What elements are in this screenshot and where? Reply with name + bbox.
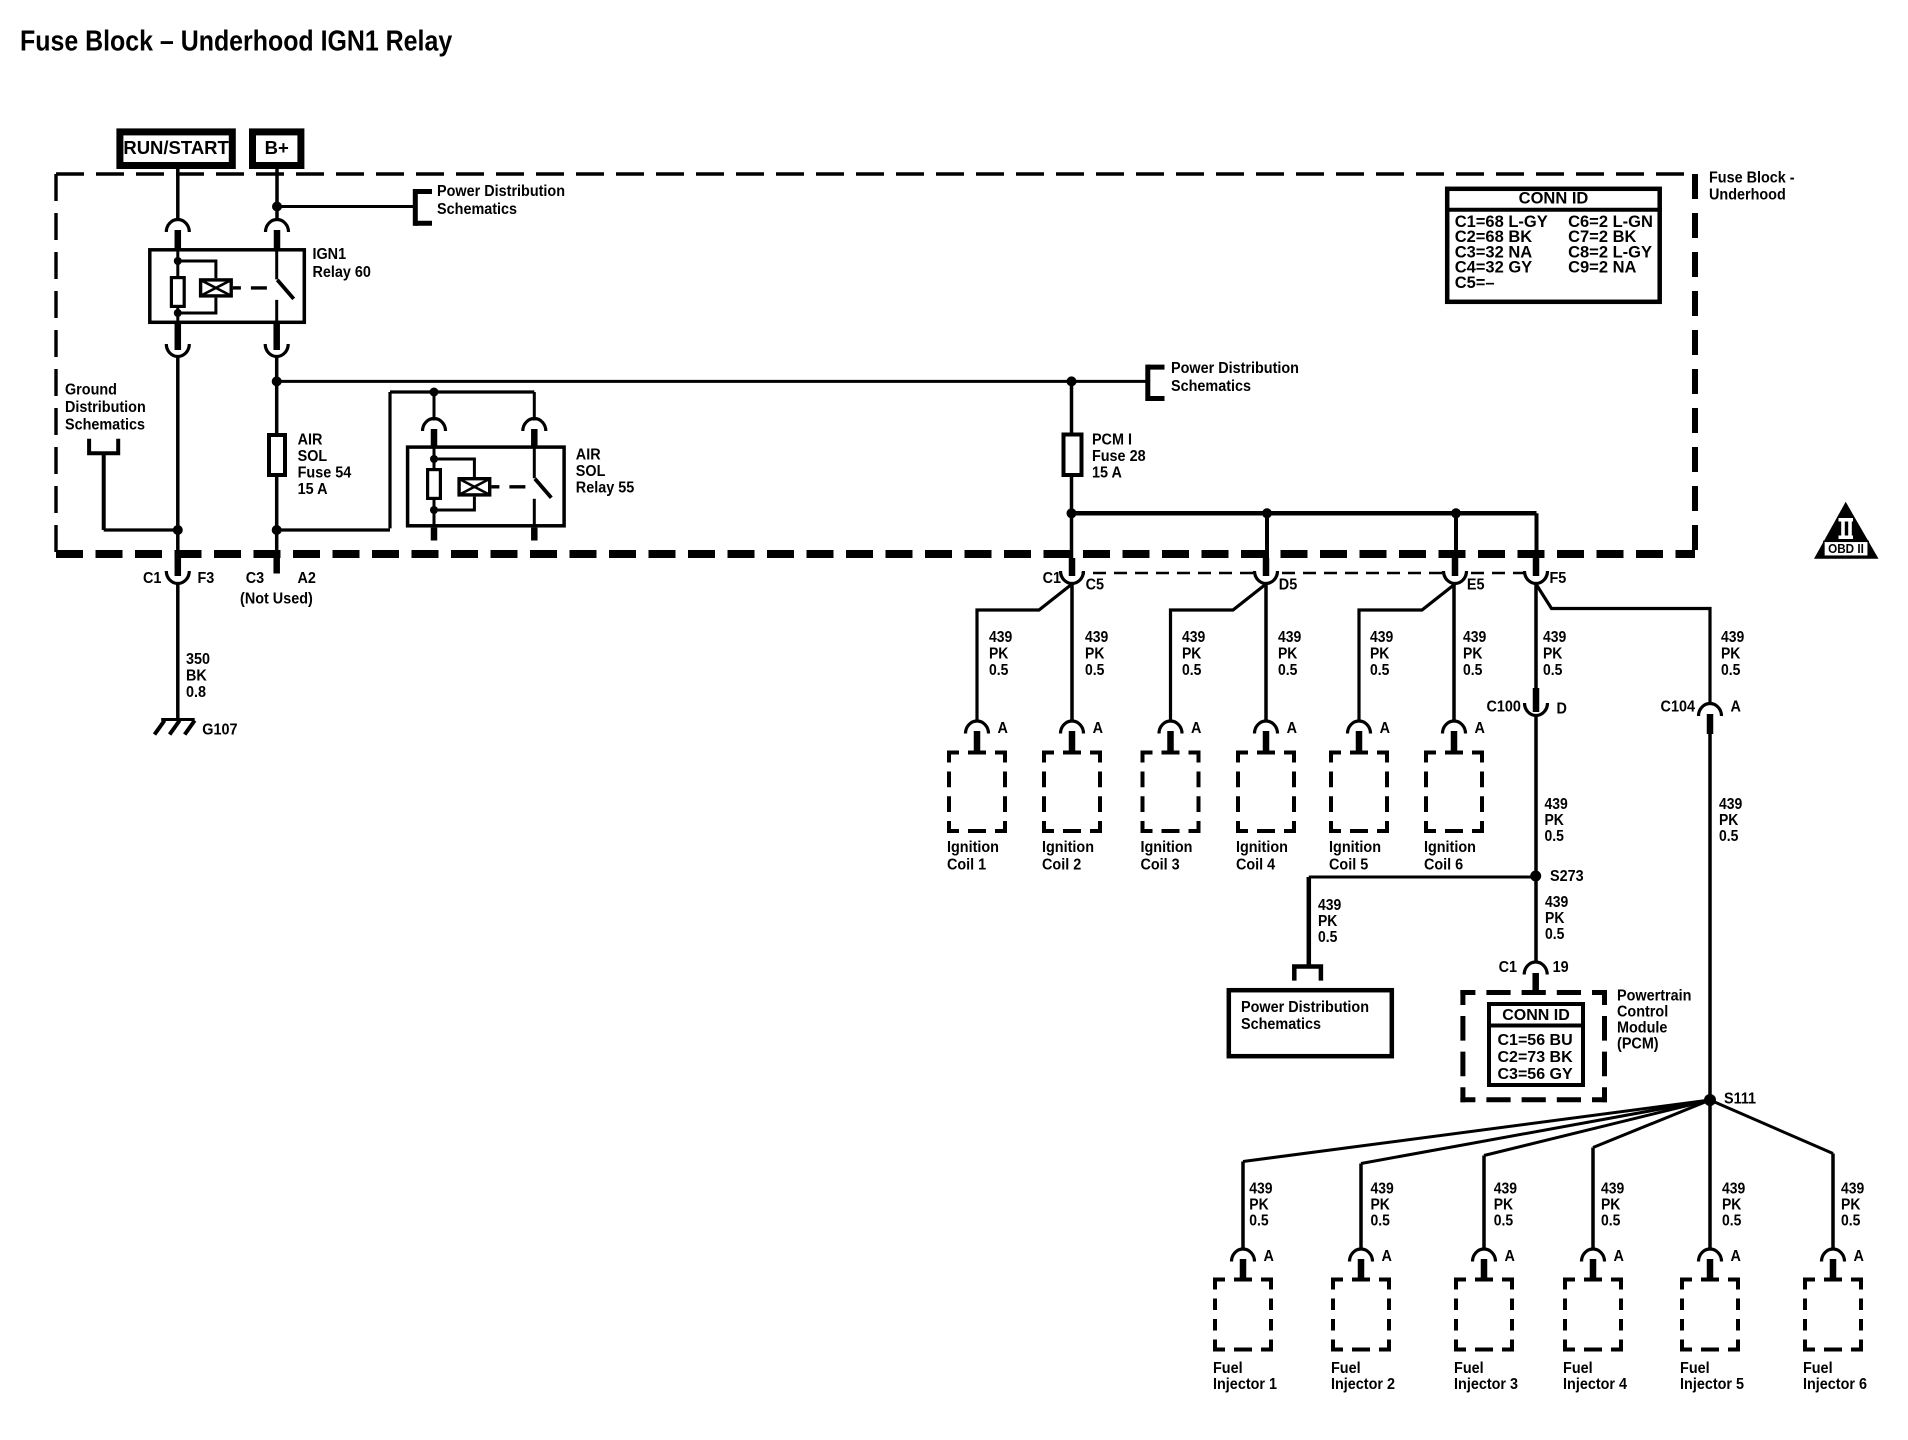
svg-text:0.5: 0.5 — [1494, 1213, 1513, 1230]
svg-text:Coil 3: Coil 3 — [1140, 856, 1179, 874]
svg-text:Injector 6: Injector 6 — [1803, 1376, 1867, 1394]
svg-text:D5: D5 — [1279, 576, 1298, 594]
svg-text:PK: PK — [1494, 1197, 1514, 1214]
svg-text:Ignition: Ignition — [1329, 839, 1381, 857]
svg-text:0.5: 0.5 — [1544, 828, 1563, 845]
svg-text:0.5: 0.5 — [1601, 1213, 1620, 1230]
svg-text:SOL: SOL — [298, 447, 328, 465]
svg-text:A: A — [1853, 1248, 1863, 1266]
svg-text:C2=73 BK: C2=73 BK — [1498, 1049, 1574, 1066]
svg-text:Power Distribution: Power Distribution — [437, 183, 565, 201]
svg-text:S273: S273 — [1550, 867, 1584, 885]
svg-text:PK: PK — [1721, 646, 1741, 663]
svg-text:SOL: SOL — [576, 462, 606, 480]
svg-text:(PCM): (PCM) — [1617, 1035, 1659, 1053]
svg-text:S111: S111 — [1724, 1090, 1757, 1108]
svg-text:439: 439 — [1722, 1181, 1745, 1198]
svg-text:Injector 5: Injector 5 — [1680, 1376, 1745, 1394]
svg-text:439: 439 — [1182, 629, 1205, 646]
svg-text:A: A — [998, 720, 1008, 738]
svg-text:439: 439 — [1544, 796, 1567, 813]
svg-text:F3: F3 — [197, 570, 214, 588]
svg-text:PK: PK — [1278, 646, 1298, 663]
svg-text:Coil 5: Coil 5 — [1329, 856, 1369, 874]
svg-text:Ignition: Ignition — [1236, 839, 1288, 857]
svg-text:Fuse Block – Underhood IGN1 Re: Fuse Block – Underhood IGN1 Relay — [20, 25, 452, 57]
svg-text:Ignition: Ignition — [1042, 839, 1094, 857]
svg-text:PK: PK — [1249, 1197, 1269, 1214]
svg-text:PK: PK — [1371, 1197, 1391, 1214]
svg-text:(Not Used): (Not Used) — [240, 590, 313, 608]
svg-text:A: A — [1264, 1248, 1274, 1266]
svg-text:439: 439 — [1249, 1181, 1272, 1198]
svg-text:0.5: 0.5 — [989, 662, 1008, 679]
svg-text:A: A — [1382, 1248, 1392, 1266]
svg-text:439: 439 — [1318, 897, 1341, 914]
svg-text:Coil 4: Coil 4 — [1236, 856, 1276, 874]
svg-text:0.5: 0.5 — [1721, 662, 1740, 679]
svg-text:PK: PK — [1370, 646, 1390, 663]
svg-text:CONN ID: CONN ID — [1502, 1007, 1570, 1024]
svg-text:Injector 3: Injector 3 — [1454, 1376, 1518, 1394]
svg-text:0.5: 0.5 — [1085, 662, 1104, 679]
svg-text:AIR: AIR — [298, 431, 323, 449]
svg-text:Coil 2: Coil 2 — [1042, 856, 1081, 874]
svg-text:C104: C104 — [1661, 698, 1696, 716]
svg-text:Ignition: Ignition — [1140, 839, 1192, 857]
svg-text:439: 439 — [1721, 629, 1744, 646]
svg-text:C5=–: C5=– — [1455, 274, 1495, 292]
svg-text:A: A — [1731, 1248, 1741, 1266]
svg-text:Distribution: Distribution — [65, 399, 146, 417]
svg-text:Relay 55: Relay 55 — [576, 479, 635, 497]
svg-text:0.5: 0.5 — [1719, 828, 1738, 845]
svg-text:B+: B+ — [265, 137, 289, 158]
svg-text:PK: PK — [1182, 646, 1202, 663]
svg-text:C3: C3 — [246, 570, 264, 588]
svg-text:PK: PK — [1722, 1197, 1742, 1214]
svg-text:Schematics: Schematics — [65, 416, 145, 434]
svg-text:439: 439 — [1278, 629, 1301, 646]
svg-text:AIR: AIR — [576, 446, 601, 464]
svg-text:Fuse 28: Fuse 28 — [1092, 447, 1146, 465]
svg-text:0.5: 0.5 — [1371, 1213, 1390, 1230]
svg-text:C1: C1 — [1499, 959, 1518, 977]
svg-text:439: 439 — [989, 629, 1012, 646]
svg-text:A: A — [1191, 720, 1201, 738]
svg-text:Injector 1: Injector 1 — [1213, 1376, 1278, 1394]
svg-text:15 A: 15 A — [1092, 464, 1122, 482]
svg-text:PK: PK — [1318, 913, 1338, 930]
svg-text:Schematics: Schematics — [437, 201, 517, 219]
svg-text:0.5: 0.5 — [1463, 662, 1482, 679]
svg-text:C9=2 NA: C9=2 NA — [1568, 259, 1636, 277]
svg-text:OBD II: OBD II — [1828, 541, 1864, 556]
svg-text:0.5: 0.5 — [1182, 662, 1201, 679]
svg-text:439: 439 — [1719, 796, 1742, 813]
svg-text:Fuse 54: Fuse 54 — [298, 464, 352, 482]
svg-text:0.5: 0.5 — [1249, 1213, 1268, 1230]
svg-text:C1=56 BU: C1=56 BU — [1498, 1032, 1573, 1049]
svg-text:439: 439 — [1371, 1181, 1394, 1198]
svg-text:G107: G107 — [202, 721, 237, 739]
svg-text:PK: PK — [1085, 646, 1105, 663]
svg-text:E5: E5 — [1467, 576, 1485, 594]
svg-text:439: 439 — [1463, 629, 1486, 646]
svg-text:Fuse Block -: Fuse Block - — [1709, 169, 1795, 187]
svg-text:Schematics: Schematics — [1241, 1015, 1321, 1033]
svg-text:19: 19 — [1553, 959, 1569, 977]
svg-text:439: 439 — [1370, 629, 1393, 646]
svg-text:A: A — [1614, 1248, 1624, 1266]
svg-text:A: A — [1731, 698, 1741, 716]
svg-text:BK: BK — [186, 667, 207, 685]
svg-text:PK: PK — [1719, 812, 1739, 829]
svg-text:439: 439 — [1601, 1181, 1624, 1198]
svg-text:CONN ID: CONN ID — [1519, 189, 1589, 207]
svg-text:Injector 4: Injector 4 — [1563, 1376, 1628, 1394]
svg-text:PK: PK — [1601, 1197, 1621, 1214]
svg-text:C100: C100 — [1486, 698, 1520, 716]
svg-text:PK: PK — [989, 646, 1009, 663]
svg-text:439: 439 — [1543, 629, 1566, 646]
svg-text:0.5: 0.5 — [1543, 662, 1562, 679]
svg-text:Ignition: Ignition — [947, 839, 999, 857]
svg-text:Schematics: Schematics — [1171, 378, 1251, 396]
svg-text:15 A: 15 A — [298, 480, 328, 498]
svg-text:RUN/START: RUN/START — [123, 137, 229, 158]
svg-text:Ground: Ground — [65, 381, 117, 399]
svg-text:PK: PK — [1841, 1197, 1861, 1214]
svg-text:0.5: 0.5 — [1318, 929, 1337, 946]
svg-text:0.5: 0.5 — [1278, 662, 1297, 679]
svg-text:A: A — [1505, 1248, 1515, 1266]
svg-text:439: 439 — [1085, 629, 1108, 646]
svg-text:IGN1: IGN1 — [312, 246, 346, 264]
svg-text:PK: PK — [1545, 910, 1565, 927]
svg-text:PCM I: PCM I — [1092, 431, 1132, 449]
svg-text:0.5: 0.5 — [1841, 1213, 1860, 1230]
svg-text:F5: F5 — [1549, 570, 1566, 588]
svg-text:Underhood: Underhood — [1709, 186, 1786, 204]
svg-text:0.5: 0.5 — [1545, 926, 1564, 943]
svg-text:439: 439 — [1841, 1181, 1864, 1198]
svg-text:A: A — [1380, 720, 1390, 738]
svg-text:PK: PK — [1543, 646, 1563, 663]
svg-text:A2: A2 — [298, 570, 316, 588]
svg-text:Power Distribution: Power Distribution — [1241, 998, 1369, 1016]
svg-text:A: A — [1475, 720, 1485, 738]
svg-text:D: D — [1556, 700, 1566, 718]
svg-text:Power Distribution: Power Distribution — [1171, 360, 1299, 378]
svg-text:C5: C5 — [1086, 576, 1105, 594]
svg-text:0.5: 0.5 — [1722, 1213, 1741, 1230]
svg-text:439: 439 — [1494, 1181, 1517, 1198]
svg-text:PK: PK — [1463, 646, 1483, 663]
svg-text:Coil 6: Coil 6 — [1424, 856, 1463, 874]
svg-text:Injector 2: Injector 2 — [1331, 1376, 1395, 1394]
svg-text:Relay 60: Relay 60 — [312, 264, 370, 282]
svg-text:0.8: 0.8 — [186, 683, 206, 701]
svg-text:C1: C1 — [1043, 570, 1062, 588]
svg-text:A: A — [1093, 720, 1103, 738]
svg-text:350: 350 — [186, 650, 210, 668]
svg-text:C1: C1 — [143, 570, 162, 588]
svg-text:PK: PK — [1544, 812, 1564, 829]
svg-text:0.5: 0.5 — [1370, 662, 1389, 679]
svg-text:439: 439 — [1545, 894, 1568, 911]
svg-text:C3=56 GY: C3=56 GY — [1498, 1066, 1573, 1083]
svg-text:Coil 1: Coil 1 — [947, 856, 987, 874]
svg-text:Ignition: Ignition — [1424, 839, 1476, 857]
svg-text:A: A — [1287, 720, 1297, 738]
